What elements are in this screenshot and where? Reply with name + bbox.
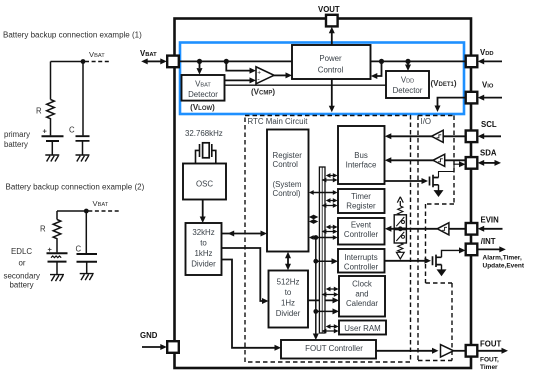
svg-text:Divider: Divider: [276, 309, 301, 318]
svg-text:+: +: [43, 126, 48, 135]
bus glyph: bus to user RAM pair: [325, 327, 334, 332]
svg-text:RTC Main Circuit: RTC Main Circuit: [248, 117, 309, 126]
wire EDLC to ground: [56, 262, 58, 275]
FOUT Controller block: [281, 340, 376, 359]
node junction on VBAT rail 1: [197, 59, 202, 64]
bus bar 2 inner line: [321, 167, 323, 333]
svg-text:Alarm,Timer,: Alarm,Timer,: [483, 254, 522, 261]
wire: interrupts controller to INT transistor gate: [385, 260, 425, 262]
512Hz to 1Hz Divider block: [269, 271, 309, 328]
I/O dashed boundary: [418, 116, 454, 361]
wire: line A to interrupts controller: [316, 260, 332, 262]
svg-text:R: R: [36, 107, 42, 116]
svg-text:battery: battery: [10, 281, 34, 290]
svg-text:Register: Register: [273, 151, 303, 160]
pin VDD: [466, 56, 478, 68]
svg-text:Battery backup connection exam: Battery backup connection example (1): [3, 31, 142, 40]
wire: SDA transistor drain to SDA pin: [439, 164, 461, 177]
wire example 2 left branch: [56, 211, 58, 220]
svg-text:Control): Control): [273, 189, 301, 198]
capacitor C example 1: [76, 136, 90, 141]
svg-text:32.768kHz: 32.768kHz: [185, 129, 223, 138]
node on EVIN line at switch column: [398, 226, 403, 231]
wire: VDD rail: [371, 60, 466, 62]
svg-text:Control: Control: [273, 160, 299, 169]
wire: EVIN pin buffer to event controller: [390, 228, 437, 230]
RTC Main Circuit dashed boundary: [245, 116, 411, 363]
bus glyph: register control to bus pair: [313, 217, 315, 222]
wire: SCL pin to bus interface: [390, 135, 466, 137]
svg-text:(System: (System: [273, 180, 302, 189]
pin VIO: [466, 92, 478, 104]
Event Controller block: [338, 218, 385, 245]
svg-text:Interface: Interface: [346, 160, 377, 169]
svg-text:FOUT Controller: FOUT Controller: [305, 344, 363, 353]
wire: FOUT external arrow: [478, 350, 502, 352]
wire: FOUT controller to FOUT buffer: [376, 350, 432, 352]
pin /INT: [466, 244, 478, 256]
VDD Detector block: [386, 71, 429, 98]
ground example 1 battery: [45, 155, 59, 162]
svg-text:FOUT: FOUT: [480, 339, 501, 348]
wire: EVIN external arrow: [483, 228, 503, 230]
wire: INT transistor drain to INT pin: [442, 250, 461, 257]
svg-text:GND: GND: [140, 331, 158, 340]
battery primary example 1: [42, 135, 64, 137]
ground example 1 capacitor: [76, 155, 90, 162]
transistor INT open drain: [433, 255, 442, 267]
svg-text:EVIN: EVIN: [481, 215, 500, 224]
buffer FOUT: [441, 345, 454, 357]
wire example 2 capacitor branch: [85, 211, 87, 253]
svg-text:SCL: SCL: [481, 120, 497, 129]
Interrupts Controller block: [338, 249, 385, 273]
svg-text:Power: Power: [319, 54, 342, 63]
node on line A at event controller arrow: [313, 235, 318, 240]
switch SW1: [394, 215, 406, 228]
svg-text:User RAM: User RAM: [344, 324, 380, 333]
wire: SDA pin to bus interface: [390, 159, 466, 161]
buffer SDA: [433, 154, 445, 166]
svg-text:Divider: Divider: [191, 259, 216, 268]
resistor R example 1: [47, 100, 55, 120]
Clock and Calendar block: [339, 276, 385, 317]
wire: VDD detector output to Power Control: [377, 61, 382, 76]
wire: GND external arrow: [142, 346, 161, 348]
wire capacitor 2 to ground: [86, 262, 88, 273]
svg-text:primary: primary: [4, 130, 30, 139]
wire: comparator output to Power Control: [274, 74, 287, 76]
chip outer boundary: [175, 19, 472, 369]
node junction on VDD rail 2: [405, 59, 410, 64]
wire: VBAT external double arrow: [146, 60, 162, 62]
pin FOUT: [466, 345, 478, 357]
svg-text:Timer: Timer: [351, 192, 371, 201]
svg-text:Timer: Timer: [480, 364, 498, 371]
User RAM block: [339, 321, 386, 335]
svg-text:Event: Event: [351, 220, 372, 229]
wire: /INT external arrow: [478, 248, 500, 250]
wire: rail to comparator plus input: [226, 61, 250, 70]
resistor pull-down: [398, 243, 403, 252]
resistor R example 2: [53, 220, 61, 240]
wire: SDA transistor source to ground: [438, 185, 440, 191]
svg-text:or: or: [19, 258, 26, 267]
pin SCL: [466, 131, 478, 143]
power control section blue boundary: [180, 43, 464, 115]
svg-text:I/O: I/O: [421, 117, 432, 126]
svg-text:Bus: Bus: [354, 151, 368, 160]
ground example 2 capacitor: [80, 274, 94, 281]
ground example 2 EDLC: [50, 275, 64, 282]
EDLC battery example 2: [47, 252, 68, 254]
svg-text:OSC: OSC: [196, 180, 213, 189]
wire example 1 capacitor branch: [82, 62, 84, 136]
wire resistor to EDLC: [56, 239, 58, 252]
svg-text:Controller: Controller: [344, 262, 379, 271]
svg-text:C: C: [76, 245, 82, 254]
svg-text:Calendar: Calendar: [346, 299, 378, 308]
node junction on VDD rail 1: [379, 59, 384, 64]
bus bar 1: [319, 167, 325, 333]
wire: divider to FOUT controller: [222, 260, 276, 348]
svg-text:SDA: SDA: [480, 148, 497, 157]
wire: divider to 512Hz divider: [222, 248, 263, 301]
wire: SDA external double arrow: [483, 162, 496, 164]
32kHz to 1kHz Divider block: [186, 223, 222, 275]
svg-text:VOUT: VOUT: [318, 5, 340, 14]
wire: OSC to divider: [202, 200, 204, 218]
wire: SCL external arrow: [483, 135, 501, 137]
wire: VIO pin to I/O block: [438, 98, 466, 106]
Power Control block: [292, 45, 371, 79]
svg-text:32kHz: 32kHz: [192, 228, 214, 237]
svg-text:Clock: Clock: [352, 280, 372, 289]
buffer EVIN: [437, 223, 449, 235]
comparator (VCMP): [256, 67, 274, 84]
svg-text:Controller: Controller: [344, 230, 379, 239]
oscillator OSC: [183, 164, 226, 200]
svg-text:Register: Register: [346, 201, 376, 210]
resistor pull-up: [398, 206, 403, 215]
wire: bus interface to SDA output transistor gate: [385, 180, 422, 182]
Bus Interface block: [338, 126, 385, 184]
svg-text:and: and: [355, 289, 368, 298]
wire: 512Hz divider to clock and calendar: [308, 299, 333, 301]
bus glyph: bus to timer register pair: [325, 201, 334, 206]
pin VOUT: [326, 15, 338, 27]
wire: VBAT rail: [179, 60, 292, 62]
svg-text:Detector: Detector: [393, 86, 423, 95]
wire: divider to register control double arrow: [222, 233, 262, 235]
svg-text:Update,Event: Update,Event: [483, 262, 525, 269]
wire resistor to battery: [50, 119, 52, 135]
wire capacitor to ground: [82, 141, 84, 155]
wire: Power Control to RTC main circuit: [331, 79, 333, 106]
wire: register control to timer register double arrow: [313, 192, 333, 194]
wire: VIO external arrow: [483, 97, 502, 99]
pin SDA: [466, 157, 478, 169]
wire: register control to 512Hz divider double arrow: [287, 256, 289, 265]
svg-text:Detector: Detector: [188, 90, 218, 99]
svg-text:Control: Control: [318, 66, 344, 75]
wire: VBAT detector to comparator minus input: [225, 79, 251, 81]
wire: FOUT buffer to pin: [454, 350, 466, 352]
wire: VDD external arrow: [483, 60, 502, 62]
svg-text:Battery backup connection exam: Battery backup connection example (2): [6, 183, 145, 192]
VBAT Detector U-block: [182, 75, 225, 101]
ground INT transistor: [437, 270, 445, 276]
wire example 1 left branch: [50, 62, 52, 100]
bus glyph: bus to clock and calendar pair: [325, 289, 334, 295]
wire: Power Control to VOUT pin: [331, 31, 333, 45]
ground SDA transistor: [434, 191, 442, 197]
wire example 1 top: [51, 61, 84, 63]
bus line A to FOUT controller: [315, 238, 317, 335]
ground arrow pull-down: [396, 252, 404, 259]
wire: VBAT detector to VDD detector under comparator: [225, 84, 387, 86]
svg-text:secondary: secondary: [4, 272, 40, 281]
wire: line A to clock and calendar: [316, 310, 333, 312]
wire: register control to event controller double arrow: [313, 237, 333, 239]
svg-text:to: to: [200, 239, 207, 248]
svg-text:1kHz: 1kHz: [195, 249, 213, 258]
svg-text:EDLC: EDLC: [11, 247, 32, 256]
wire: rail to VDD detector: [407, 61, 409, 65]
node example 2: [84, 209, 89, 214]
node example 1: [81, 59, 86, 64]
wire battery to ground: [51, 141, 53, 155]
svg-text:R: R: [40, 225, 46, 234]
pin EVIN: [466, 223, 478, 235]
bus glyph: bus to event controller pair: [325, 227, 334, 232]
svg-text:to: to: [285, 288, 292, 297]
Timer Register block: [338, 189, 385, 213]
wire: EVIN buffer to pin: [449, 228, 466, 230]
svg-text:battery: battery: [4, 140, 28, 149]
node junction on VBAT rail 2: [224, 59, 229, 64]
Register Control block: [267, 130, 309, 252]
svg-text:512Hz: 512Hz: [277, 277, 300, 286]
crystal X1: [196, 144, 216, 164]
bus glyph: bus to bus interface pair: [325, 176, 334, 181]
svg-text:Interrupts: Interrupts: [344, 253, 377, 262]
svg-text:1Hz: 1Hz: [281, 299, 295, 308]
svg-text:FOUT,: FOUT,: [480, 356, 499, 363]
pin GND: [167, 341, 179, 353]
wire: rail to VBAT detector: [199, 61, 201, 68]
svg-text:+: +: [48, 245, 53, 254]
pin VBAT: [167, 56, 179, 68]
switch SW2: [394, 230, 406, 243]
wire: INT transistor source to ground: [441, 265, 443, 270]
pull-up arrow to supply: [399, 201, 401, 206]
wire example 2 top: [57, 210, 86, 212]
transistor SDA open drain: [430, 175, 439, 187]
svg-text:/INT: /INT: [481, 237, 496, 246]
buffer SCL: [432, 130, 444, 142]
svg-text:C: C: [69, 126, 75, 135]
capacitor C example 2: [77, 254, 98, 262]
